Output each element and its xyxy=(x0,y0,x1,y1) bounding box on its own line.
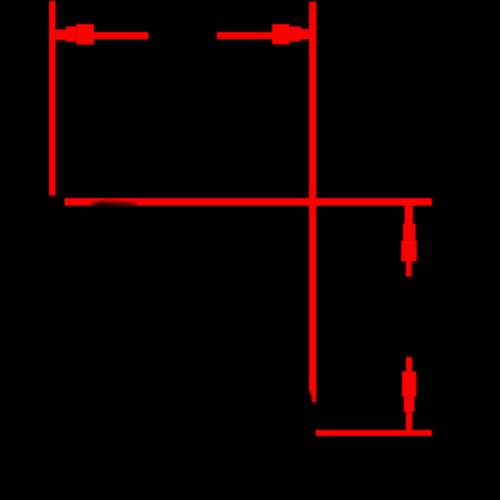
arrowhead left (points left) xyxy=(56,24,94,45)
dimension line top, left shaft xyxy=(93,32,148,39)
arrowhead down (steps narrowing downward) xyxy=(402,371,417,411)
main horizontal line xyxy=(65,198,433,206)
dimension line right, stem below up-arrow xyxy=(406,262,412,277)
dimension line right, lower stem xyxy=(406,412,412,430)
extension line left xyxy=(49,1,56,196)
bottom horizontal line xyxy=(316,430,432,436)
arrowhead right (points right) xyxy=(272,24,309,45)
extension line right xyxy=(309,2,316,402)
dimension line right, upper stem xyxy=(405,206,414,224)
dark smudge over main line xyxy=(91,202,137,207)
dimension line top, right shaft xyxy=(217,32,272,39)
dimension line right, stem above down-arrow xyxy=(406,357,412,371)
extension line right, dark taper mark at bottom tip xyxy=(308,391,311,402)
arrowhead up (steps widening downward) xyxy=(401,224,417,262)
